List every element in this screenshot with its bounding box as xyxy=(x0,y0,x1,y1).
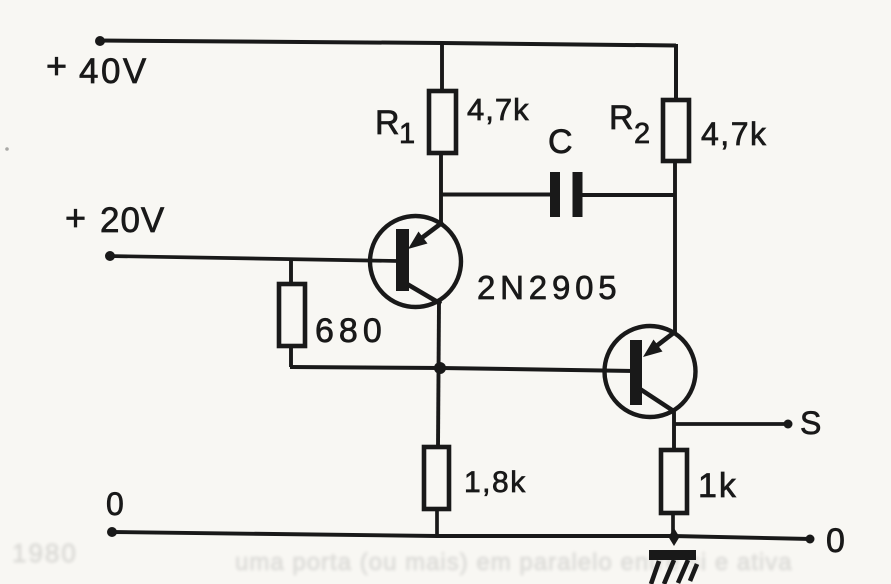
svg-text:20V: 20V xyxy=(100,201,165,240)
node: junction dot (collector / 680 / Q2 base) xyxy=(434,362,446,374)
resistor 1,8k (body) xyxy=(424,447,449,509)
wire: +20V input to Q1 base xyxy=(108,256,398,261)
svg-text:0: 0 xyxy=(106,486,124,522)
transistor Q1 emitter lead with arrow xyxy=(408,222,443,249)
resistor R2 (body) xyxy=(663,100,689,161)
svg-text:1k: 1k xyxy=(698,467,738,505)
svg-text:R: R xyxy=(375,104,400,142)
label +40V xyxy=(46,45,149,91)
wire: R1 bottom to Q1 emitter / capacitor node xyxy=(439,153,443,225)
label R1 xyxy=(375,104,415,150)
wire: R2 bottom down to Q2 collector xyxy=(673,161,677,334)
resistor 1k (body) xyxy=(661,450,687,513)
label +20V xyxy=(65,197,165,240)
wire: 0V bottom rail xyxy=(111,532,811,539)
transistor Q2 collector lead xyxy=(640,389,675,412)
stray scan speck left edge xyxy=(5,147,9,151)
node: junction diamond at ground xyxy=(669,528,680,546)
node: bottom rail left terminal dot xyxy=(107,527,117,537)
transistor Q2 base bar xyxy=(630,340,642,405)
svg-text:1980: 1980 xyxy=(12,538,78,568)
svg-text:2: 2 xyxy=(634,118,650,150)
svg-text:4,7k: 4,7k xyxy=(701,116,767,152)
transistor Q1 base bar xyxy=(396,229,409,291)
resistor 680 (body) xyxy=(279,284,305,346)
ground symbol xyxy=(649,550,697,584)
capacitor C (plates) xyxy=(550,172,583,217)
wire: 1k bottom to ground rail xyxy=(671,513,675,540)
svg-text:1,8k: 1,8k xyxy=(464,466,527,499)
svg-text:R: R xyxy=(609,99,634,137)
wire: capacitor right lead xyxy=(582,193,676,197)
svg-text:680: 680 xyxy=(315,312,387,350)
svg-text:1: 1 xyxy=(399,118,415,150)
node: +20V left terminal dot xyxy=(105,251,115,261)
node: +40V rail left terminal dot xyxy=(95,36,105,46)
wire: Q2 emitter down to 1k xyxy=(672,410,676,451)
svg-text:uma porta (ou mais) em paralel: uma porta (ou mais) em paralelo entre si… xyxy=(235,549,793,576)
ghost text band bottom-right xyxy=(235,549,793,576)
svg-text:40V: 40V xyxy=(79,52,149,91)
svg-text:4,7k: 4,7k xyxy=(467,92,530,127)
wire: horizontal run from 680 to Q2 base xyxy=(290,367,634,371)
wire: capacitor left lead xyxy=(441,193,552,197)
transistor Q2 emitter lead with arrow xyxy=(643,331,676,357)
ghost text band bottom-left xyxy=(12,538,78,568)
label R2 xyxy=(609,99,650,150)
wire: rail corner down to R2 xyxy=(674,44,678,101)
svg-text:+: + xyxy=(46,45,67,86)
wire: +40V top supply rail xyxy=(99,41,676,46)
node: bottom rail right terminal dot xyxy=(806,535,815,544)
transistor Q1 2N2905 (circle) xyxy=(370,216,461,307)
svg-text:+: + xyxy=(65,197,86,238)
svg-text:C: C xyxy=(548,123,573,161)
wire: 680 bottom stub xyxy=(289,346,293,367)
wire: stub from +20V line down to 680 xyxy=(289,258,293,285)
transistor Q2 (circle) xyxy=(605,326,696,417)
svg-text:0: 0 xyxy=(826,522,845,560)
wire: rail tap down to R1 xyxy=(440,43,444,92)
resistor R1 (body) xyxy=(429,91,456,153)
wire: 1,8k bottom to rail xyxy=(435,509,439,537)
node: S terminal dot xyxy=(784,420,793,429)
wire: Q1 collector down through junction to R 1,8k xyxy=(438,301,439,448)
svg-text:S: S xyxy=(800,405,821,441)
svg-text:2N2905: 2N2905 xyxy=(477,269,621,306)
transistor Q1 collector lead xyxy=(407,284,441,304)
wire: output S line xyxy=(674,422,788,426)
